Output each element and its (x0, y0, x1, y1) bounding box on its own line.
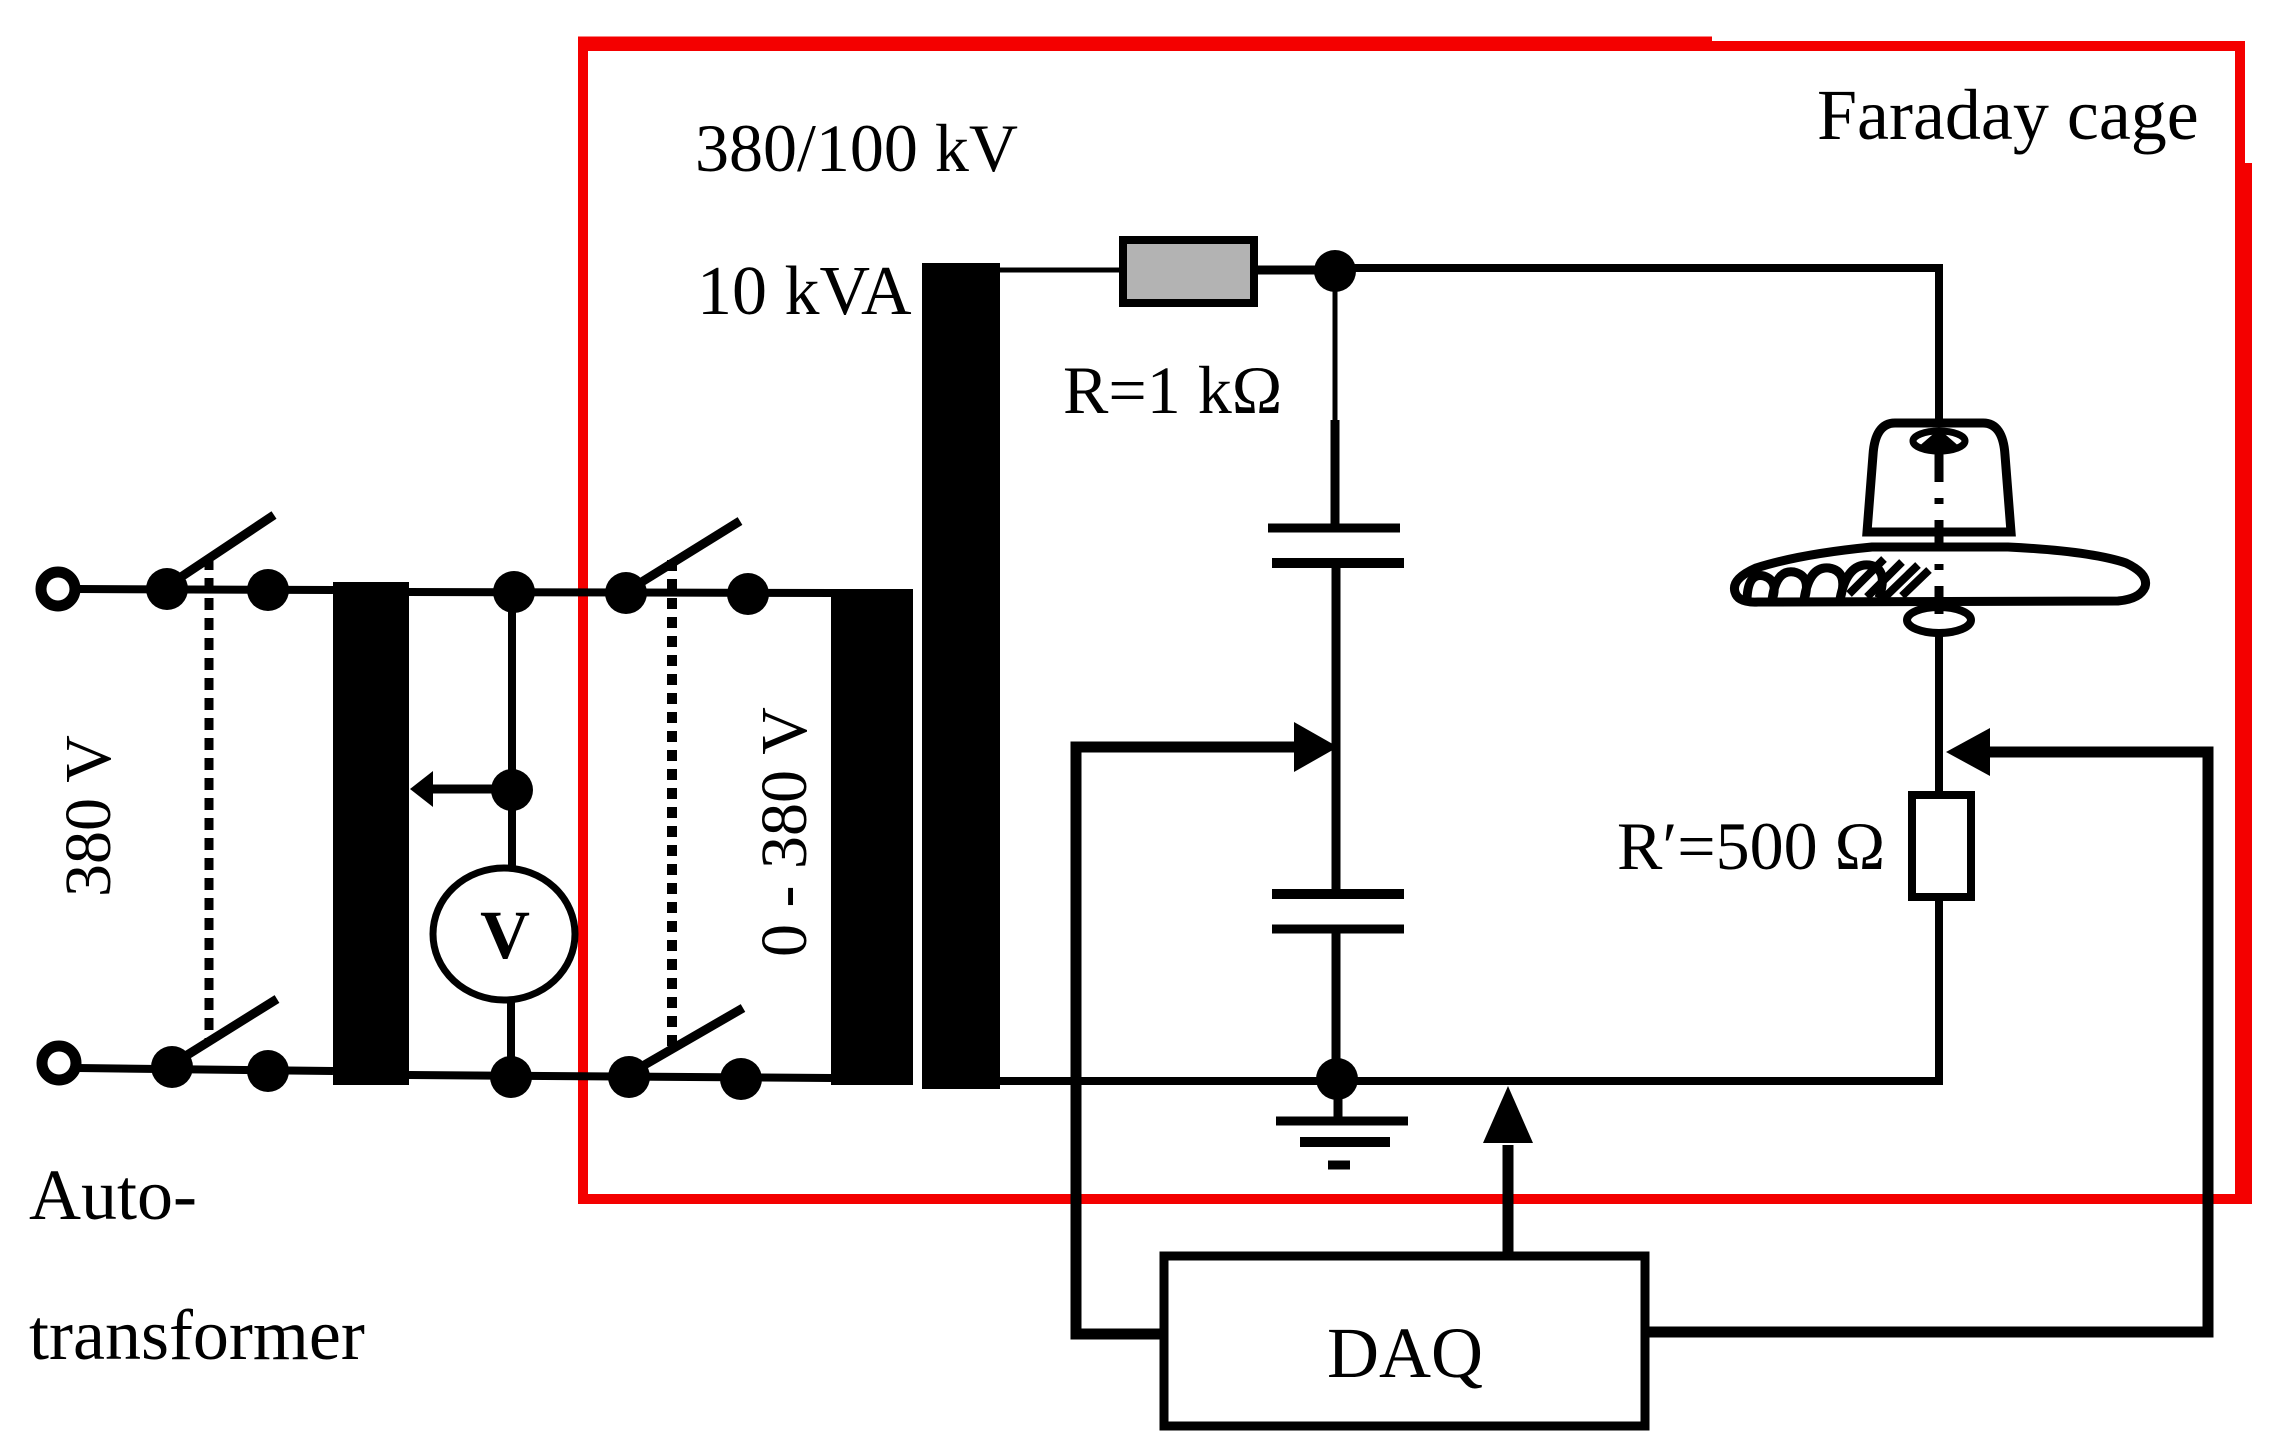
switch S2 bottom pole (608, 1008, 762, 1100)
capacitor C1 (1268, 528, 1404, 563)
svg-text:Auto-: Auto- (29, 1155, 197, 1235)
svg-text:380 V: 380 V (52, 735, 125, 897)
wire cage bottom (1000, 1077, 1943, 1085)
voltmeter V (433, 868, 575, 1000)
svg-text:V: V (480, 897, 530, 973)
insulator skirt hatch marks (1849, 559, 1929, 598)
arrow up to bottom wire (1483, 1086, 1533, 1143)
node voltmeter tap junction (491, 769, 533, 811)
wire mains top (78, 589, 333, 590)
wire voltmeter stem upper (508, 592, 516, 872)
Faraday cage red border (578, 40, 2247, 1204)
wire capacitor stem thin (1333, 271, 1338, 422)
HV transformer winding bar (922, 263, 1000, 1089)
arrow into insulator lead (1946, 728, 1990, 776)
resistor R gray body (1123, 240, 1254, 303)
node A junction dot (1314, 250, 1356, 292)
capacitor C2 (1272, 894, 1404, 929)
wire voltmeter stem lower (507, 997, 515, 1077)
svg-text:transformer: transformer (29, 1295, 365, 1375)
DAQ arrow up stem (1503, 1145, 1514, 1255)
insulator pin collar ellipse (1907, 607, 1971, 633)
switch S2 top pole (605, 521, 769, 1047)
terminal input bottom (42, 1046, 76, 1080)
autotransformer winding bar (333, 582, 409, 1085)
svg-text:380/100 kV: 380/100 kV (695, 110, 1018, 186)
node top row junction (493, 571, 535, 613)
wire R' to bottom (1935, 895, 1943, 1081)
svg-text:Faraday cage: Faraday cage (1817, 75, 2199, 155)
wire voltmeter tap (433, 785, 512, 794)
resistor R' body (1912, 795, 1971, 897)
wire insulator to R' (1935, 628, 1943, 797)
wire node A to insulator corner (1335, 268, 1939, 437)
insulator cap shell (1867, 423, 2011, 532)
DAQ wire right vertical (1645, 752, 2208, 1332)
svg-text:R=1 kΩ: R=1 kΩ (1063, 352, 1282, 428)
insulator skirt disc (1734, 547, 2145, 602)
variac transformer winding bar (831, 589, 913, 1085)
wire mains bottom (78, 1068, 333, 1071)
wire HV primary to resistor R (thin) (1000, 268, 1119, 273)
DAQ box (1164, 1256, 1645, 1426)
switch S1 bottom pole (151, 999, 289, 1092)
node ground junction dot (1316, 1058, 1358, 1100)
wire top row bar1 to bar2 (409, 592, 831, 593)
insulator axis dash-dot (1935, 432, 1944, 648)
wire resistor R to node A (1258, 266, 1335, 275)
ground symbol (1276, 1081, 1408, 1165)
wire bottom row bar1 to bar2 (409, 1075, 831, 1078)
wire C2 to ground node (1332, 932, 1341, 1079)
terminal input top (41, 572, 75, 606)
insulator top wedge (1917, 429, 1961, 448)
DAQ wire left vertical (1076, 747, 2208, 1334)
insulator skirt shading squiggle (1747, 565, 1882, 600)
svg-text:R′=500 Ω: R′=500 Ω (1617, 808, 1885, 884)
svg-text:DAQ: DAQ (1327, 1313, 1483, 1393)
switch S1 top pole (146, 515, 289, 1043)
arrow into capacitor node (1294, 722, 1338, 772)
node bottom row junction (490, 1056, 532, 1098)
svg-text:10 kVA: 10 kVA (697, 253, 912, 330)
wire capacitor stem to C1 (1331, 420, 1340, 526)
insulator top fitting ellipse (1913, 431, 1965, 451)
arrow wiper into autotransformer (410, 771, 433, 807)
svg-text:0 - 380 V: 0 - 380 V (748, 707, 821, 957)
wire C1 to C2 (1332, 566, 1341, 891)
